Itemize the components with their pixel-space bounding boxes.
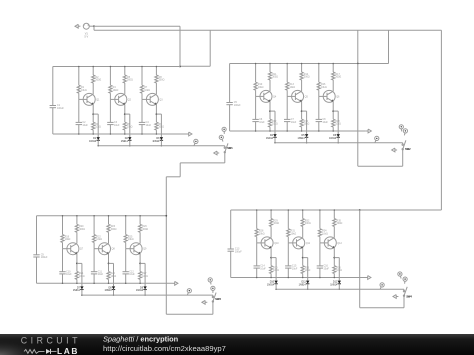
svg-text:10kΩ: 10kΩ <box>81 89 87 92</box>
capacitor C2 10uF <box>76 121 89 127</box>
capacitor C10 10uF <box>59 270 72 276</box>
svg-text:10kΩ: 10kΩ <box>128 238 134 241</box>
wire base column lower <box>318 96 320 119</box>
svg-text:100uF: 100uF <box>57 107 64 110</box>
node flag NF20 (left arrow) <box>393 295 398 299</box>
resistor R6 10k emitter <box>123 122 132 130</box>
resistor R36 10k emitter <box>333 266 342 274</box>
transistor Q11 2N3904 <box>288 237 310 249</box>
wire source to junction <box>90 25 94 27</box>
wire emitter column <box>270 248 272 266</box>
wire base column bottom <box>125 274 127 283</box>
wire base column to base <box>78 93 80 99</box>
resistor R4 10k base <box>109 85 119 93</box>
wire base column lower <box>78 99 80 122</box>
wire collector column upper <box>92 67 94 76</box>
diode D2 1N914 <box>121 137 132 143</box>
svg-text:300Ω: 300Ω <box>335 76 341 79</box>
wire collector column upper <box>269 64 271 73</box>
wire lower diode rail to switch <box>277 288 404 290</box>
resistor R33 10k emitter <box>301 266 310 274</box>
wire emitter to diode branch <box>125 113 130 115</box>
wire base column to base <box>287 237 289 243</box>
wire base column bottom <box>319 268 321 277</box>
node emitter junction <box>302 257 304 259</box>
wire top supply rail <box>231 209 442 211</box>
svg-text:10kΩ: 10kΩ <box>96 238 102 241</box>
node flag NF16 (right arrow) <box>366 276 371 280</box>
wire base column lower <box>286 96 288 119</box>
wire base column upper <box>287 210 289 229</box>
wire emitter to diode branch <box>156 113 161 115</box>
wire block2 right edge down <box>357 64 359 167</box>
wire lower diode rail to switch <box>276 142 403 144</box>
svg-text:10uF: 10uF <box>98 273 104 276</box>
wire supply line B drop at 210 <box>209 30 211 66</box>
resistor R5 300 collector <box>123 75 133 83</box>
wire collector column upper <box>333 210 335 219</box>
wire emitter column lower <box>155 130 157 134</box>
transistor Q8 2N3904 <box>94 243 115 255</box>
resistor R26 300 collector <box>139 224 149 232</box>
capacitor C7 10uF <box>284 118 297 124</box>
wire base column upper <box>109 67 111 86</box>
wire diode to lower rail <box>113 290 115 296</box>
wire base column to base <box>286 90 288 96</box>
resistor R21 10k emitter <box>75 271 84 279</box>
wire emitter column <box>302 248 304 266</box>
wire base column lower <box>141 99 143 122</box>
node rail junctions <box>62 215 64 217</box>
resistor R16 10k base <box>317 82 327 90</box>
wire base column to base <box>319 237 321 243</box>
wire emitter to diode branch <box>77 262 82 264</box>
wire base column upper <box>255 64 257 83</box>
wire base column to base <box>256 237 258 243</box>
svg-text:300Ω: 300Ω <box>79 228 85 231</box>
wire lower diode rail to switch <box>83 294 213 296</box>
wire collector column to transistor <box>124 83 126 94</box>
wire base column lower <box>255 96 257 119</box>
diode D10 1N914 <box>267 281 278 287</box>
transistor Q7 2N3904 <box>63 243 84 255</box>
transistor Q3 2N3904 <box>142 93 163 105</box>
svg-text:10kΩ: 10kΩ <box>289 86 295 89</box>
wire base column lower <box>109 99 111 122</box>
node flag NF15 (left arrow) <box>202 300 207 304</box>
wire collector column to transistor <box>76 232 78 243</box>
resistor R35 300 collector <box>333 219 343 227</box>
node flag NF9 above switch <box>403 129 407 136</box>
wire diode column upper <box>275 258 277 281</box>
resistor R30 10k emitter <box>270 266 279 274</box>
wire emitter column lower <box>269 127 271 131</box>
wire diode to lower rail <box>129 140 131 146</box>
node emitter junction <box>76 263 78 265</box>
capacitor C3 10uF <box>107 121 120 127</box>
wire base column upper <box>286 64 288 83</box>
wire collector column upper <box>332 64 334 73</box>
wire supply drop to block2 rail a <box>357 30 359 63</box>
wire base column upper <box>62 216 64 235</box>
resistor R8 300 collector <box>155 75 165 83</box>
wire base column upper <box>141 67 143 86</box>
wire emitter column <box>108 254 110 272</box>
switch SW1 <box>224 143 233 153</box>
resistor R11 300 collector <box>268 72 278 80</box>
transistor Q6 2N3904 <box>319 90 340 102</box>
resistor R7 10k base <box>140 85 150 93</box>
transistor Q1 2N3904 <box>79 93 100 105</box>
diode D4 1N914 <box>266 134 277 140</box>
wire emitter column <box>76 254 78 272</box>
svg-text:1N914: 1N914 <box>267 283 275 286</box>
wire diode column upper <box>97 114 99 137</box>
wire base column bottom <box>286 122 288 131</box>
wire staircase h1 <box>180 162 225 164</box>
wire emitter column lower <box>92 130 94 134</box>
wire collector column upper <box>139 216 141 225</box>
svg-text:http://circuitlab.com/cm2xkeaa: http://circuitlab.com/cm2xkeaa89yp7 <box>103 344 226 353</box>
wire emitter column <box>301 102 303 120</box>
wire diode to lower rail <box>337 137 339 143</box>
svg-text:10kΩ: 10kΩ <box>113 89 119 92</box>
resistor R18 10k emitter <box>332 119 341 127</box>
svg-text:100uF: 100uF <box>41 256 48 259</box>
wire base column bottom <box>93 274 95 283</box>
wire emitter to diode branch <box>271 257 276 259</box>
transistor Q4 2N3904 <box>256 90 277 102</box>
wire bottom rail <box>231 277 366 279</box>
resistor R34 10k base <box>318 229 328 237</box>
svg-text:10uF: 10uF <box>114 124 120 127</box>
svg-text:1N914: 1N914 <box>152 140 160 143</box>
wire collector column to transistor <box>139 232 141 243</box>
svg-text:1N914: 1N914 <box>329 137 337 140</box>
svg-text:SW1: SW1 <box>227 147 233 150</box>
wire collector column upper <box>302 210 304 219</box>
wire base column bottom <box>109 125 111 134</box>
wire base column to base <box>141 93 143 99</box>
node rail junctions <box>286 63 288 65</box>
svg-text:5 V: 5 V <box>84 35 88 39</box>
wire base column upper <box>318 64 320 83</box>
wire collector column upper <box>155 67 157 76</box>
capacitor C8 10uF <box>316 118 329 124</box>
wire emitter to diode branch <box>270 110 275 112</box>
svg-text:1N914: 1N914 <box>73 289 81 292</box>
wire diode column upper <box>113 263 115 286</box>
wire base column bottom <box>318 122 320 131</box>
svg-text:100uF: 100uF <box>234 104 241 107</box>
svg-text:Spaghetti / encryption: Spaghetti / encryption <box>103 334 179 343</box>
wire left edge upper <box>229 64 231 103</box>
node block2 rail junction <box>357 63 359 65</box>
svg-text:CIRCUIT: CIRCUIT <box>21 336 81 346</box>
node emitter junction <box>139 263 141 265</box>
svg-text:300Ω: 300Ω <box>159 79 165 82</box>
svg-text:SW2: SW2 <box>405 148 411 151</box>
node flag NF1 (right arrow) <box>187 132 192 136</box>
node flag NF4 above switch <box>219 135 223 141</box>
node flag NF8 above switch <box>399 125 403 132</box>
resistor R2 300 collector <box>92 75 102 83</box>
resistor R1 10k base <box>77 85 87 93</box>
capacitor C1 100uF <box>50 104 65 110</box>
wire supply line A <box>94 25 180 27</box>
node flag NF13 above switch <box>208 278 212 285</box>
wire bottom return to SW2 <box>166 313 213 315</box>
voltage source V1 5V <box>83 23 89 39</box>
node flag NF19 above switch <box>403 277 407 284</box>
node flag NF11 (right arrow) <box>173 281 178 285</box>
resistor R27 10k emitter <box>139 271 148 279</box>
wire emitter to diode branch <box>334 257 339 259</box>
wire base column lower <box>125 249 127 272</box>
svg-text:10uF: 10uF <box>259 121 265 124</box>
node rail junctions <box>318 63 320 65</box>
wire base column bottom <box>62 274 64 283</box>
diode D6 1N914 <box>329 134 340 140</box>
wire top supply rail <box>53 66 180 68</box>
wire collector column to transistor <box>155 83 157 94</box>
wire base column lower <box>319 243 321 266</box>
node rail junctions <box>256 209 258 211</box>
resistor R9 10k emitter <box>155 122 164 130</box>
wire emitter to diode branch <box>333 110 338 112</box>
wire emitter to diode branch <box>303 257 308 259</box>
wire emitter column <box>269 102 271 120</box>
wire emitter column lower <box>124 130 126 134</box>
wire emitter column <box>332 102 334 120</box>
wire emitter column lower <box>302 274 304 278</box>
node rail junctions <box>255 63 257 65</box>
wire collector column to transistor <box>270 227 272 238</box>
resistor R13 10k base <box>286 82 296 90</box>
resistor R19 10k base <box>61 235 71 243</box>
svg-text:10kΩ: 10kΩ <box>321 86 327 89</box>
wire left edge lower <box>230 251 232 277</box>
wire emitter to diode branch <box>109 262 114 264</box>
resistor R24 10k emitter <box>107 271 116 279</box>
wire supply drop to block2 rail b <box>388 30 390 63</box>
diode D8 1N914 <box>104 286 115 292</box>
resistor R15 10k emitter <box>300 119 309 127</box>
wire left edge upper <box>230 210 232 249</box>
svg-text:10kΩ: 10kΩ <box>259 232 265 235</box>
capacitor C13 100uF <box>228 248 243 254</box>
wire base column upper <box>256 210 258 229</box>
node flag NF6 (right arrow) <box>366 129 371 133</box>
wire collector column to transistor <box>108 232 110 243</box>
wire SW4 bottom drop <box>403 297 405 308</box>
wire block2 U bottom <box>358 165 403 167</box>
svg-text:300Ω: 300Ω <box>305 222 311 225</box>
node emitter junction <box>270 257 272 259</box>
svg-text:10uF: 10uF <box>291 121 297 124</box>
node block1 rail corner junction <box>179 66 181 68</box>
wire left edge upper <box>36 216 38 255</box>
wire loop to block1 rail corner <box>180 65 210 67</box>
wire base column bottom <box>287 268 289 277</box>
svg-text:10uF: 10uF <box>292 267 298 270</box>
wire emitter column lower <box>270 274 272 278</box>
node rail junctions <box>319 209 321 211</box>
diode D11 1N914 <box>299 281 310 287</box>
svg-text:100uF: 100uF <box>235 250 242 253</box>
wire block4 right edge down <box>359 210 361 308</box>
diode D12 1N914 <box>330 281 341 287</box>
wire diode to lower rail <box>160 140 162 146</box>
wire left edge lower <box>52 108 54 134</box>
wire base column lower <box>287 243 289 266</box>
node rail junctions <box>78 66 80 68</box>
wire bottom rail <box>53 133 187 135</box>
wire staircase v1 <box>179 163 181 177</box>
capacitor C4 10uF <box>139 121 152 127</box>
wire emitter column <box>124 105 126 123</box>
wire emitter column lower <box>333 274 335 278</box>
transistor Q2 2N3904 <box>110 93 131 105</box>
svg-text:SW4: SW4 <box>406 296 412 299</box>
wire left edge lower <box>36 257 38 283</box>
capacitor C16 10uF <box>317 265 330 271</box>
diode D5 1N914 <box>298 134 309 140</box>
wire diode to lower rail <box>338 284 340 290</box>
svg-text:300Ω: 300Ω <box>272 76 278 79</box>
resistor R14 300 collector <box>300 72 310 80</box>
svg-text:10uF: 10uF <box>260 267 266 270</box>
wire base column bottom <box>141 125 143 134</box>
wire emitter column <box>92 105 94 123</box>
transistor Q9 2N3904 <box>126 243 147 255</box>
wire emitter column <box>139 254 141 272</box>
svg-text:300Ω: 300Ω <box>111 228 117 231</box>
wire diode column upper <box>306 111 308 134</box>
wire diode column upper <box>129 114 131 137</box>
resistor R29 300 collector <box>270 219 280 227</box>
svg-text:1N914: 1N914 <box>299 283 307 286</box>
resistor R28 10k base <box>255 229 265 237</box>
svg-text:10kΩ: 10kΩ <box>144 89 150 92</box>
wire diode to lower rail <box>306 137 308 143</box>
wire top supply rail <box>37 215 167 217</box>
svg-text:10uF: 10uF <box>82 124 88 127</box>
wire block4 U bottom <box>360 307 404 309</box>
node flag NF7 on switch wire <box>375 136 379 143</box>
svg-text:10uF: 10uF <box>324 267 330 270</box>
svg-text:1N914: 1N914 <box>298 137 306 140</box>
wire collector column upper <box>301 64 303 73</box>
wire left edge lower <box>229 105 231 131</box>
capacitor C5 100uF <box>226 101 241 107</box>
resistor R12 10k emitter <box>268 119 277 127</box>
wire emitter column <box>155 105 157 123</box>
svg-text:10kΩ: 10kΩ <box>322 232 328 235</box>
wire lower diode rail to switch <box>99 145 225 147</box>
node flag NF14 above switch <box>211 286 215 293</box>
wire emitter to diode branch <box>302 110 307 112</box>
wire emitter column lower <box>139 279 141 283</box>
svg-text:300Ω: 300Ω <box>142 228 148 231</box>
svg-text:1N914: 1N914 <box>104 289 112 292</box>
node rail junctions <box>141 66 143 68</box>
wire base column to base <box>318 90 320 96</box>
node rail junctions <box>288 209 290 211</box>
node emitter junction <box>333 257 335 259</box>
resistor R31 10k base <box>287 229 297 237</box>
svg-text:10uF: 10uF <box>129 273 135 276</box>
svg-text:1N914: 1N914 <box>266 137 274 140</box>
node rail junctions <box>110 66 112 68</box>
capacitor C11 10uF <box>91 270 104 276</box>
wire emitter column lower <box>76 279 78 283</box>
node flag NF2 on switch wire <box>194 139 198 146</box>
wire collector column to transistor <box>333 227 335 238</box>
wire diode to lower rail <box>274 137 276 143</box>
svg-text:300Ω: 300Ω <box>127 79 133 82</box>
transistor Q12 2N3904 <box>320 237 343 249</box>
wire supply line B drop from junction <box>93 26 95 30</box>
wire SW3 bottom drop <box>212 302 214 314</box>
capacitor C14 10uF <box>254 265 267 271</box>
wire emitter column lower <box>301 127 303 131</box>
node flag NF18 above switch <box>398 272 402 279</box>
diode D9 1N914 <box>136 286 147 292</box>
wire diode to lower rail <box>144 290 146 296</box>
wire diode column upper <box>307 258 309 281</box>
wire base column to base <box>109 93 111 99</box>
wire base column to base <box>125 243 127 249</box>
wire left edge upper <box>52 67 54 106</box>
wire base column lower <box>256 243 258 266</box>
svg-text:1N914: 1N914 <box>330 283 338 286</box>
wire emitter to diode branch <box>93 113 98 115</box>
wire base column bottom <box>78 125 80 134</box>
svg-text:1N914: 1N914 <box>121 140 129 143</box>
node emitter junction <box>108 263 110 265</box>
capacitor C6 10uF <box>252 118 265 124</box>
node block4 rail junction <box>359 209 361 211</box>
node emitter junction <box>332 110 334 112</box>
wire diode column upper <box>274 111 276 134</box>
svg-text:10uF: 10uF <box>322 121 328 124</box>
wire staircase h2 <box>166 176 180 178</box>
diode D3 1N914 <box>152 137 163 143</box>
node supply junction <box>93 25 95 27</box>
svg-text:300Ω: 300Ω <box>273 222 279 225</box>
resistor R20 300 collector <box>75 224 85 232</box>
svg-text:Q12: Q12 <box>337 242 342 245</box>
switch SW2 <box>402 140 411 151</box>
wire top supply rail <box>230 63 389 65</box>
svg-text:1N914: 1N914 <box>89 140 97 143</box>
wire SW2 bottom drop <box>402 150 404 166</box>
wire supply line B <box>94 29 441 31</box>
diode D7 1N914 <box>73 286 84 292</box>
wire diode to lower rail <box>81 290 83 296</box>
node flag NF10 (left arrow) <box>392 148 397 152</box>
wire diode column upper <box>337 111 339 134</box>
wire collector column upper <box>270 210 272 219</box>
wire diode to lower rail <box>307 284 309 290</box>
transistor Q10 2N3904 <box>257 237 280 249</box>
wire diode to lower rail <box>275 284 277 290</box>
wire base column upper <box>78 67 80 86</box>
node rail junctions <box>93 215 95 217</box>
resistor R25 10k base <box>124 235 134 243</box>
wire base column to base <box>62 243 64 249</box>
